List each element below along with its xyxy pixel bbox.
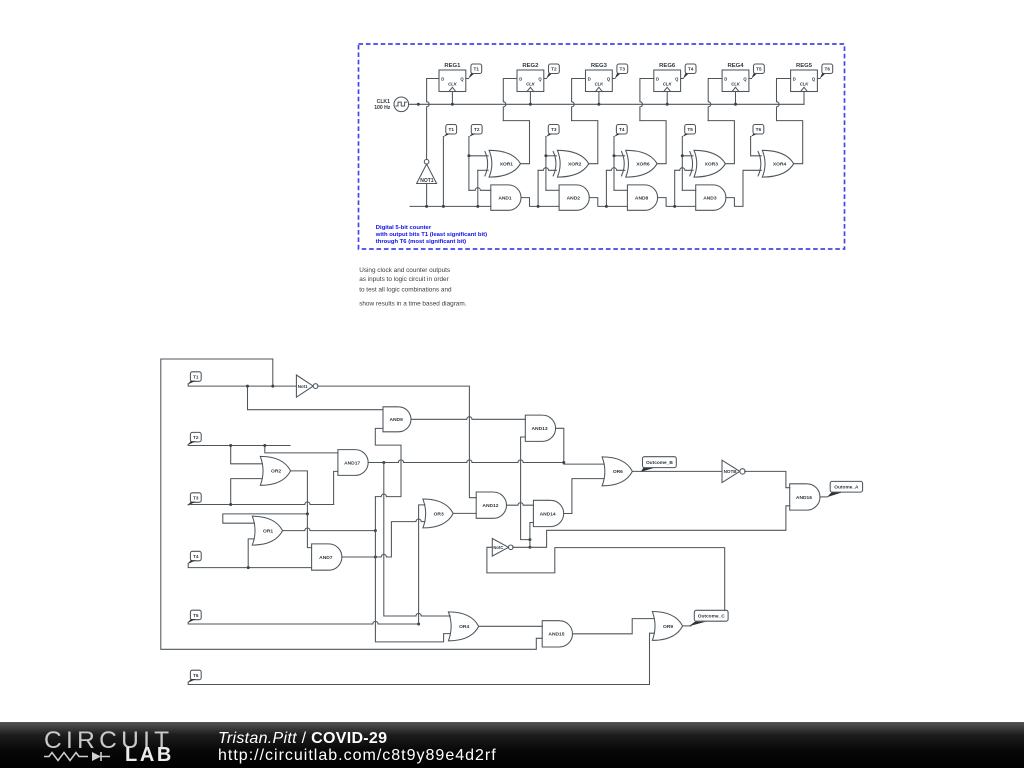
svg-text:as inputs to logic circuit in: as inputs to logic circuit in order	[359, 276, 449, 283]
or gate OR2	[260, 456, 290, 485]
wire: T2 line (stub)	[188, 444, 290, 445]
wire: NotC input loop from Outcome_C node	[487, 547, 725, 611]
svg-text:REG2: REG2	[522, 63, 539, 69]
and gate AND16	[790, 484, 820, 510]
svg-text:OR2: OR2	[271, 469, 281, 475]
input tag T3 (counter bit into XOR/AND chain)	[548, 125, 559, 135]
input tag T6 (counter bit into XOR/AND chain)	[753, 125, 764, 135]
wire: AND14 output to OR6 bottom input	[564, 479, 604, 514]
svg-text:AND3: AND3	[703, 195, 717, 201]
wire: AND13 bottom input from NotC output node	[521, 437, 530, 540]
wire: AND13 output to OR6 top input	[556, 428, 605, 464]
or gate OR6	[602, 457, 632, 486]
wire: AND17 output to OR6 top input (hops 3 verticals)	[368, 460, 564, 463]
wire: NOT1 input from T1 enable line	[426, 184, 428, 207]
wire: tag T2 to XOR1 top input and AND1 top input	[468, 137, 470, 191]
wire: AND2 output to next stage enable	[589, 198, 627, 207]
wire: AND9 lower input loop from OR1/AND7 node	[375, 428, 401, 496]
inverter NotC	[492, 539, 508, 557]
wire: XOR6 output to REG6 D input (hops clock line)	[640, 121, 666, 164]
wire: T1 enable line segment to AND1	[410, 205, 491, 207]
inverter NOT1 (feeds REG1 D input)	[417, 164, 437, 184]
wire: OR9 output to Outcome_C tag	[683, 625, 691, 627]
svg-text:Outcome_B: Outcome_B	[646, 460, 673, 466]
svg-text:NOT1: NOT1	[420, 178, 434, 184]
and gate AND17	[338, 450, 368, 476]
CircuitLab logo	[44, 727, 173, 755]
svg-text:T6: T6	[825, 67, 831, 72]
svg-text:Outcome_C: Outcome_C	[698, 614, 725, 620]
wire: AND8 output to next stage enable	[658, 198, 696, 207]
svg-text:OR6: OR6	[613, 469, 623, 475]
svg-text:D: D	[441, 77, 444, 82]
wire: enable tap up to XOR2 lower input	[537, 170, 539, 206]
input tag T5 (counter bit into XOR/AND chain)	[685, 125, 696, 135]
input tag T1 (counter bit into XOR/AND chain)	[446, 125, 457, 135]
D flip-flop register REG2	[517, 70, 544, 92]
svg-text:XOR1: XOR1	[500, 162, 514, 168]
or gate OR3	[423, 499, 453, 528]
svg-text:T3: T3	[620, 67, 626, 72]
svg-text:T2: T2	[551, 67, 557, 72]
svg-text:D: D	[519, 77, 522, 82]
svg-text:Not1: Not1	[298, 384, 308, 389]
svg-text:OR3: OR3	[434, 511, 444, 517]
and gate AND1	[491, 185, 521, 210]
wire: OR1 output to common node (hops OR2 output drop)	[283, 528, 376, 531]
svg-text:OR9: OR9	[663, 624, 673, 630]
svg-text:AND1: AND1	[498, 195, 512, 201]
wire: tag T5 to XOR3 top input and AND3 top input	[681, 137, 683, 191]
output tag T4 at register REG6 Q pin	[681, 78, 684, 80]
and gate AND12	[476, 492, 506, 518]
clock source CLK1 100 Hz	[394, 97, 409, 112]
output tag Outcome_C	[689, 622, 706, 627]
wire: T1 branch around left side to AND15 lower input	[161, 359, 542, 649]
wire: T5 up to OR3 top input	[419, 505, 425, 624]
or gate OR1	[252, 516, 282, 545]
svg-text:AND8: AND8	[635, 195, 649, 201]
svg-text:OR4: OR4	[459, 624, 469, 630]
svg-text:NOTB: NOTB	[724, 469, 738, 474]
svg-text:through T6 (most significant b: through T6 (most significant bit)	[376, 239, 466, 245]
and gate AND15	[542, 621, 572, 647]
wire: OR4 output to AND15 top input	[479, 625, 543, 627]
svg-text:D: D	[656, 77, 659, 82]
wire: AND3 output to next stage enable	[726, 170, 761, 206]
wire: OR3 output to AND12 bottom input	[453, 512, 476, 514]
svg-text:AND7: AND7	[319, 555, 333, 561]
svg-text:AND2: AND2	[567, 195, 581, 201]
xor gate XOR2	[557, 150, 588, 177]
svg-text:AND14: AND14	[540, 511, 556, 517]
svg-text:CLK: CLK	[595, 82, 605, 87]
xor gate XOR1	[489, 150, 520, 177]
svg-text:show results in a time based d: show results in a time based diagram.	[359, 301, 466, 308]
xor gate XOR4	[762, 150, 793, 177]
wire: Not1 output down to AND12 top input	[318, 386, 477, 498]
wire: XOR3 output to REG4 D input (hops clock line)	[708, 121, 734, 164]
D flip-flop register REG3	[586, 70, 613, 92]
and gate AND14	[533, 500, 563, 526]
svg-text:Outome_A: Outome_A	[834, 485, 859, 491]
wire: T6 line up to OR9 bottom input	[188, 633, 654, 684]
svg-text:D: D	[588, 77, 591, 82]
xor gate XOR3	[694, 150, 725, 177]
input tag T5 (lower logic circuit)	[190, 610, 201, 620]
wire: NOTB output to AND16 top input	[745, 471, 790, 487]
output tag T3 at register REG3 Q pin	[612, 78, 615, 80]
wire: tag T3 to XOR2 top input and AND2 top input	[545, 137, 547, 191]
wire: enable tap up to XOR3 lower input	[674, 170, 676, 206]
D flip-flop register REG4	[722, 70, 749, 92]
input tag T2 (lower logic circuit)	[190, 432, 201, 442]
svg-text:REG5: REG5	[796, 63, 813, 69]
wire: T1 line to Not1 input	[188, 384, 296, 386]
input tag T1 (lower logic circuit)	[190, 372, 201, 382]
svg-text:T6: T6	[756, 127, 762, 132]
and gate AND3	[696, 185, 726, 210]
svg-text:T3: T3	[551, 127, 557, 132]
D flip-flop register REG1	[439, 70, 466, 92]
and gate AND8	[627, 185, 657, 210]
junction dots on clock line	[417, 103, 420, 106]
svg-text:T3: T3	[193, 495, 199, 500]
wire: common node down to OR4 bottom input	[375, 531, 450, 642]
wire: T3 line to AND17 bottom input (hops OR2 output)	[188, 502, 333, 505]
wire: enable tap up to XOR6 lower input	[605, 170, 607, 206]
svg-text:T4: T4	[688, 67, 694, 72]
wire: T2 branch to OR2 top input	[231, 446, 263, 464]
xor gate XOR6	[626, 150, 657, 177]
output tag Outome_A	[827, 492, 843, 497]
wire: AND9 output to AND13 top input (hops Not1 line)	[411, 417, 525, 420]
wire: OR6 output to NOTB input	[632, 470, 722, 472]
output tag Outcome_B	[641, 468, 655, 472]
wire: T4 branch up to OR1 bottom input	[248, 539, 254, 568]
wire: tag T6 to XOR4 top input	[751, 137, 762, 156]
svg-text:T2: T2	[193, 435, 199, 440]
svg-text:T1: T1	[474, 67, 480, 72]
and gate AND9	[383, 407, 411, 432]
wire: XOR2 output to REG3 D input (hops clock line)	[572, 121, 598, 164]
svg-text:REG1: REG1	[444, 63, 461, 69]
wire: AND1 output to next stage enable	[521, 198, 559, 207]
svg-text:T2: T2	[474, 127, 480, 132]
svg-text:D: D	[724, 77, 727, 82]
svg-text:REG3: REG3	[591, 63, 608, 69]
svg-text:XOR2: XOR2	[568, 162, 582, 168]
wire: XOR4 output to REG5 D input (hops clock line)	[777, 121, 803, 164]
svg-text:OR1: OR1	[263, 528, 273, 534]
wire: T1 branch to AND9 top input	[248, 386, 384, 410]
svg-text:T4: T4	[193, 554, 199, 559]
svg-text:AND17: AND17	[344, 460, 360, 466]
wire: tag T1 down to enable line	[442, 137, 444, 207]
and gate AND13	[525, 415, 555, 441]
D flip-flop register REG6	[654, 70, 681, 92]
svg-text:T1: T1	[448, 127, 454, 132]
wire: T2 branch to AND17 top input	[265, 446, 338, 453]
credit text	[218, 730, 387, 748]
wire: NOT1 output to REG1 D (hops clock line)	[427, 79, 439, 160]
wire: AND14 bottom input from NotC output	[530, 523, 534, 548]
input tag T3 (lower logic circuit)	[190, 493, 201, 503]
svg-text:REG4: REG4	[727, 63, 744, 69]
svg-text:D: D	[793, 77, 796, 82]
svg-text:AND12: AND12	[482, 503, 498, 509]
input tag T4 (lower logic circuit)	[190, 551, 201, 561]
wire: XOR1 output to REG2 D input (hops clock line)	[503, 121, 529, 164]
input tag T4 (counter bit into XOR/AND chain)	[616, 125, 627, 135]
svg-text:T6: T6	[193, 673, 199, 678]
wire: OR2 bottom input from T3 line	[231, 479, 263, 505]
svg-text:CLK: CLK	[526, 82, 536, 87]
svg-text:CLK: CLK	[448, 82, 458, 87]
svg-text:XOR4: XOR4	[773, 162, 787, 168]
wire: OR2 output down to AND7 top input and OR1 top input loop	[291, 471, 312, 548]
svg-text:CLK: CLK	[800, 82, 810, 87]
wire: AND17 output branch down to OR4 top input	[384, 463, 451, 617]
wire: NotC output to AND16 bottom input	[513, 506, 790, 548]
inverter NOTB	[722, 460, 740, 482]
wire: tag T4 to XOR6 top input and AND8 top input	[613, 137, 615, 191]
wire: T5 line (hops common node drop)	[188, 621, 418, 624]
svg-text:T5: T5	[687, 127, 693, 132]
and gate AND2	[559, 185, 589, 210]
output tag T2 at register REG2 Q pin	[544, 78, 547, 80]
dashed annotation box around counter circuit	[359, 44, 845, 249]
svg-text:Using clock and counter output: Using clock and counter outputs	[359, 267, 450, 274]
svg-text:CLK: CLK	[731, 82, 741, 87]
wire: T4 line to AND7 bottom input	[188, 563, 311, 567]
junction dots on T2 line	[229, 444, 232, 447]
and gate AND7	[312, 544, 342, 570]
svg-text:100 Hz: 100 Hz	[374, 105, 391, 111]
junction dots on T1 line	[246, 385, 249, 388]
svg-text:with output bits T1 (least sig: with output bits T1 (least significant b…	[375, 232, 487, 238]
inverter Not1	[296, 375, 313, 397]
input tag T2 (counter bit into XOR/AND chain)	[471, 125, 482, 135]
or gate OR9	[652, 612, 682, 641]
output tag T1 at register REG1 Q pin	[466, 78, 469, 80]
svg-text:NotC: NotC	[493, 545, 503, 550]
wire: enable tap up to XOR1 lower input	[477, 170, 479, 206]
or gate OR4	[448, 612, 478, 641]
input tag T6 (lower logic circuit)	[190, 670, 201, 680]
svg-text:AND9: AND9	[389, 417, 403, 423]
svg-text:T1: T1	[193, 374, 199, 379]
svg-text:CLK: CLK	[663, 82, 673, 87]
svg-text:Digital 5-bit counter: Digital 5-bit counter	[376, 225, 432, 231]
wire: AND12 output to AND14 top input (hops AND13 drop)	[507, 503, 534, 506]
junction dots on enable line and tag wires	[425, 205, 428, 208]
svg-text:AND13: AND13	[532, 426, 548, 432]
svg-text:T5: T5	[756, 67, 762, 72]
wire: AND16 output to Outome_A tag	[820, 496, 827, 498]
svg-text:AND15: AND15	[548, 632, 564, 638]
svg-text:XOR3: XOR3	[705, 162, 719, 168]
svg-text:REG6: REG6	[659, 63, 676, 69]
svg-text:T5: T5	[193, 613, 199, 618]
svg-text:T4: T4	[619, 127, 625, 132]
output tag T5 at register REG4 Q pin	[749, 78, 752, 80]
wire: clock line from CLK1 to all register CLK pins	[409, 103, 804, 105]
svg-text:XOR6: XOR6	[636, 162, 650, 168]
wire: AND15 output to OR9 top input	[573, 619, 655, 634]
D flip-flop register REG5	[791, 70, 818, 92]
svg-text:to test all logic combinations: to test all logic combinations and	[359, 286, 452, 293]
wire: AND7 output to OR3 bottom input (hops AND17 drop)	[342, 519, 425, 557]
output tag T6 at register REG5 Q pin	[817, 78, 820, 80]
svg-text:AND16: AND16	[796, 495, 812, 501]
